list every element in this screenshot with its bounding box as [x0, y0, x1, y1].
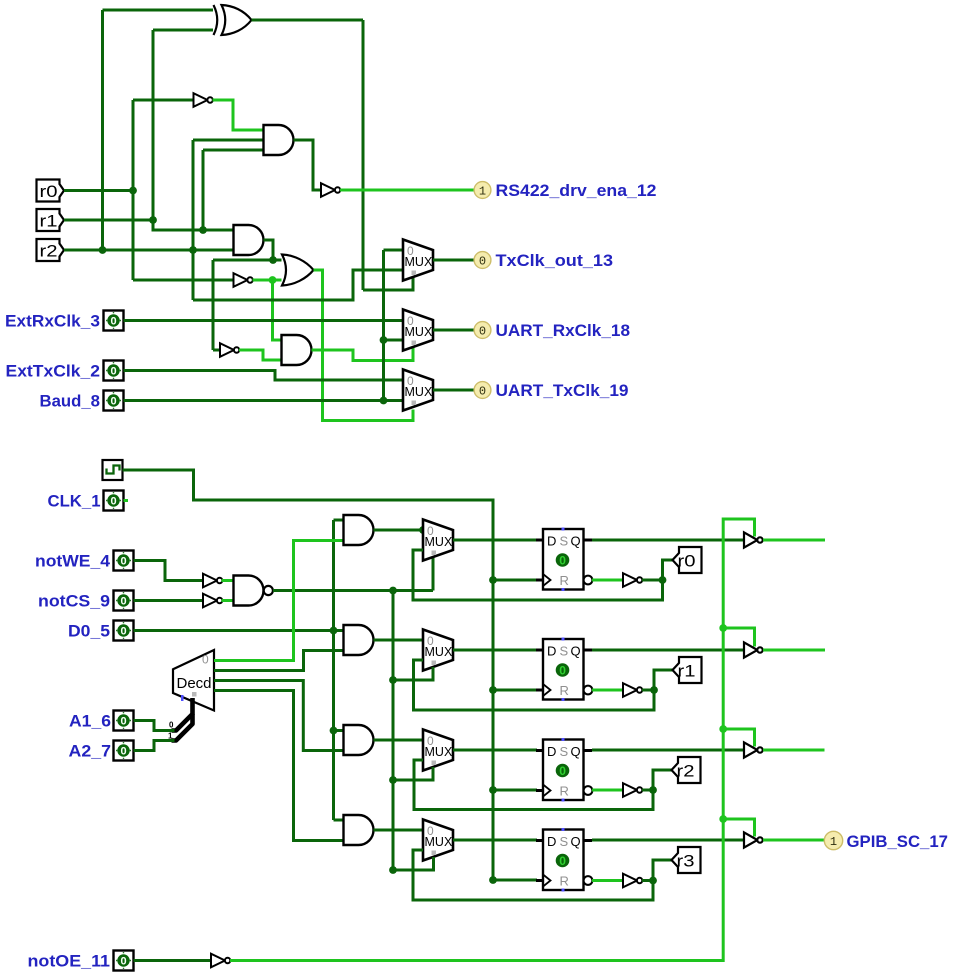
wire XOR1 output to MUX1 select rail — [252, 20, 364, 290]
wire vertical x133 — [132, 100, 135, 280]
inverter NOT2 — [321, 183, 340, 197]
label notCS_9 — [38, 593, 110, 611]
svg-text:0: 0 — [479, 384, 486, 398]
node enable-b junction — [719, 624, 727, 632]
wire to tunnel r0 — [663, 560, 673, 580]
flip-flop DFF-c — [536, 738, 592, 802]
wire NOT3 output to OR1 in2 — [253, 279, 282, 282]
svg-text:notCS_9: notCS_9 — [38, 593, 110, 611]
input pin A1_6 — [114, 711, 134, 731]
wire XOR input B from node x153 — [153, 30, 213, 220]
wire NOT5 out to NAND in1 — [222, 579, 234, 582]
node enable-c junction — [719, 725, 727, 733]
and gate AND-d — [344, 815, 374, 845]
inverter NOT-oe — [211, 954, 230, 968]
inverter NOT1 — [194, 93, 213, 107]
wire NOT3 out to AND3 in1 — [273, 280, 282, 340]
wire AND1 in2 from x193 rail — [193, 140, 264, 300]
wire CLK branch DFF-b — [493, 689, 537, 692]
svg-text:1: 1 — [479, 184, 486, 198]
wire enable branch d — [723, 819, 754, 837]
node AND2-in1 x203 junction — [199, 226, 207, 234]
node D0 junction — [330, 627, 338, 635]
label A1_6 — [69, 713, 111, 731]
label ExtTxClk_2 — [6, 363, 101, 381]
svg-text:MUX: MUX — [405, 325, 433, 339]
inverter NOT4 — [220, 343, 239, 357]
wire DFF-b notQ to NOT-b — [592, 689, 623, 692]
svg-text:S: S — [560, 644, 569, 659]
wire to tunnel r3 — [653, 860, 672, 881]
svg-text:0: 0 — [120, 556, 126, 568]
node AND2-out junction — [269, 256, 277, 264]
input pin notCS_9 — [114, 591, 134, 611]
multiplexer MUX-c — [423, 730, 453, 771]
svg-text:GPIB_SC_17: GPIB_SC_17 — [847, 833, 949, 851]
output pin TxClk_out_13 — [474, 252, 491, 269]
svg-text:TxClk_out_13: TxClk_out_13 — [496, 252, 614, 270]
splitter SPL1 — [168, 698, 193, 741]
wire NOT-b out — [642, 689, 654, 692]
output pin UART_TxClk_19 — [474, 382, 491, 399]
wire MUX3 out — [433, 389, 475, 392]
wire CLK branch DFF-a — [493, 579, 537, 582]
node CLK-c junction — [489, 786, 497, 794]
buffer BUF-a — [744, 532, 763, 547]
svg-text:R: R — [560, 874, 569, 889]
svg-text:notOE_11: notOE_11 — [28, 953, 111, 971]
wire DFF-b Q to buffer — [592, 649, 744, 652]
wire DFF-c Q to buffer — [592, 749, 744, 752]
wire AND1 output to NOT2 — [294, 140, 322, 190]
wire BUF-b out — [763, 649, 825, 652]
svg-text:S: S — [560, 834, 569, 849]
node select-b junction — [389, 676, 397, 684]
wire OR1 output to MUX3 select — [314, 270, 414, 421]
tunnel r1 (left) — [37, 209, 65, 231]
node Baud junction — [380, 397, 388, 405]
node CLK-d junction — [489, 876, 497, 884]
svg-text:0: 0 — [110, 396, 116, 408]
svg-text:0: 0 — [120, 746, 126, 758]
wire CLK branch DFF-c — [493, 789, 537, 792]
node MUX-a in0 junction — [419, 526, 427, 534]
svg-text:MUX: MUX — [405, 385, 433, 399]
wire select vertical x393 — [392, 591, 395, 871]
wire NOT1 output to AND1 in1 — [213, 100, 264, 130]
svg-text:0: 0 — [169, 721, 174, 730]
wire BUF-c out — [763, 749, 825, 752]
wire Baud rail to MUX2 in1 — [384, 339, 404, 342]
label notOE_11 — [28, 953, 111, 971]
wire ExtRxClk to MUX2 in0 — [124, 319, 404, 322]
svg-text:MUX: MUX — [425, 745, 453, 759]
wire XOR input A from node x102 — [103, 10, 214, 250]
xor gate XOR1 — [214, 5, 252, 35]
or gate OR1 — [282, 255, 314, 286]
label GPIB_SC_17 — [847, 833, 949, 851]
and gate AND3 — [282, 335, 312, 365]
multiplexer MUX-d — [423, 820, 453, 861]
node NOT-a junction — [659, 576, 667, 584]
multiplexer MUX3 — [403, 370, 433, 411]
wire NOT4 output to AND3 in2 — [239, 350, 282, 360]
tunnel r0 (right) — [673, 547, 702, 573]
output pin RS422_drv_ena_12 — [474, 182, 491, 199]
svg-text:D: D — [547, 834, 556, 849]
wire decoder out1 to AND-b in2 — [214, 651, 344, 671]
svg-text:RS422_drv_ena_12: RS422_drv_ena_12 — [496, 182, 657, 200]
wire MUX1-in1 feeder y300 — [193, 270, 403, 300]
node CLK-b junction — [489, 686, 497, 694]
svg-text:1: 1 — [830, 835, 837, 849]
and gate AND-c — [344, 725, 374, 755]
wire decoder out3 to AND-d in2 — [214, 691, 344, 841]
svg-text:0: 0 — [479, 324, 486, 338]
buffer BUF-c — [744, 742, 763, 757]
svg-text:MUX: MUX — [405, 255, 433, 269]
svg-text:D: D — [547, 644, 556, 659]
wire A2 to splitter leg1 — [134, 741, 175, 751]
node NOT-d junction — [649, 877, 657, 885]
svg-text:MUX: MUX — [425, 535, 453, 549]
wire r1 to node — [64, 219, 153, 222]
and gate AND-b — [344, 625, 374, 655]
svg-text:Decd: Decd — [177, 675, 212, 692]
flip-flop DFF-b — [536, 638, 592, 702]
input pin notWE_4 — [114, 551, 134, 571]
label ExtRxClk_3 — [5, 313, 100, 331]
wire MUX-c out to DFF-c D — [453, 749, 537, 752]
wire feedback row2 — [414, 660, 655, 710]
multiplexer MUX-a — [423, 520, 453, 561]
label UART_TxClk_19 — [496, 382, 629, 400]
wire r0 to node — [64, 189, 133, 192]
wire enable branch c — [723, 729, 754, 747]
inverter NOT-b — [623, 683, 642, 697]
wire NAND output / write-select rail — [273, 558, 433, 591]
wire feedback row1 — [413, 550, 663, 600]
svg-text:R: R — [560, 573, 569, 588]
wire Baud rail to MUX1 in0 — [384, 250, 404, 401]
wire NOT-a out — [642, 579, 663, 582]
svg-text:R: R — [560, 683, 569, 698]
wire DFF-c notQ to NOT-c — [592, 789, 623, 792]
input pin ExtRxClk_3 — [104, 311, 124, 331]
buffer BUF-b — [744, 642, 763, 657]
svg-text:r0: r0 — [678, 553, 696, 571]
tunnel r1 (right) — [673, 657, 702, 683]
svg-text:0: 0 — [110, 316, 116, 328]
wire OR1 in1 rail x213 — [213, 260, 282, 350]
svg-text:UART_RxClk_18: UART_RxClk_18 — [496, 322, 631, 340]
svg-text:R: R — [560, 784, 569, 799]
node NOT-b junction — [650, 686, 658, 694]
label notWE_4 — [35, 553, 111, 571]
svg-text:UART_TxClk_19: UART_TxClk_19 — [496, 382, 629, 400]
node D0-ANDc junction — [330, 727, 338, 735]
wire NOT4 input stub — [213, 349, 220, 352]
and gate AND2 — [234, 225, 264, 255]
svg-text:A2_7: A2_7 — [69, 743, 112, 761]
wire NOT3 input — [133, 279, 234, 282]
wire DFF-a notQ to NOT-a — [592, 579, 623, 582]
wire MUX-a out to DFF-a D — [453, 539, 537, 542]
svg-text:0: 0 — [559, 554, 566, 568]
svg-text:0: 0 — [202, 653, 209, 667]
node NAND-out junction — [389, 587, 397, 595]
wire AND-a out to MUX-a in0 — [374, 529, 424, 532]
svg-text:0: 0 — [559, 764, 566, 778]
node NOT3-out junction — [269, 276, 277, 284]
label Baud_8 — [40, 393, 101, 411]
wire CLK branch DFF-d — [493, 879, 537, 882]
wire notOE to NOT-oe — [134, 959, 212, 962]
label RS422_drv_ena_12 — [496, 182, 657, 200]
node NOT-c junction — [649, 786, 657, 794]
svg-text:ExtRxClk_3: ExtRxClk_3 — [5, 313, 100, 331]
decoder DEC1 — [173, 650, 214, 711]
input pin A2_7 — [114, 741, 134, 761]
wire enable rail — [230, 519, 755, 961]
buffer BUF-d — [744, 832, 763, 847]
wire ExtTxClk to MUX3 in0 — [124, 371, 404, 381]
svg-text:S: S — [560, 534, 569, 549]
tunnel r0 (left) — [37, 180, 65, 202]
svg-text:MUX: MUX — [425, 835, 453, 849]
wire r1 to AND2 in1 — [153, 220, 234, 230]
node r0 junction — [129, 187, 137, 195]
svg-text:Q: Q — [571, 744, 581, 759]
wire MUX-b out to DFF-b D — [453, 649, 537, 652]
tunnel r3 (right) — [672, 847, 701, 873]
wire AND-c out to MUX-c in0 — [374, 739, 424, 742]
wire NOT2 output to RS422 pin — [340, 189, 474, 192]
node select-c junction — [389, 776, 397, 784]
inverter NOT-c — [623, 783, 642, 797]
wire MUX2 out — [433, 329, 475, 332]
tunnel r2 (left) — [37, 239, 65, 261]
node r2-x102 junction — [99, 246, 107, 254]
svg-text:0: 0 — [559, 664, 566, 678]
wire MUX1 out — [433, 259, 474, 262]
wire notWE to NOT5 — [134, 561, 204, 581]
label A2_7 — [69, 743, 112, 761]
wire A1 to splitter leg0 — [134, 721, 175, 731]
input pin D0_5 — [114, 621, 134, 641]
inverter NOT-a — [623, 573, 642, 587]
label CLK_1 — [48, 493, 101, 511]
wire AND-d out to MUX-d in0 — [374, 829, 424, 832]
svg-text:Q: Q — [571, 834, 581, 849]
svg-text:D0_5: D0_5 — [68, 623, 110, 641]
wire select row3 — [393, 767, 433, 780]
svg-text:Baud_8: Baud_8 — [40, 393, 101, 411]
clock component CLK — [103, 460, 123, 480]
svg-text:0: 0 — [110, 366, 116, 378]
svg-text:ExtTxClk_2: ExtTxClk_2 — [6, 363, 101, 381]
wire DFF-a Q to buffer — [592, 539, 744, 542]
nand gate NAND1 — [234, 576, 273, 606]
node Baud-MUX2 junction — [380, 336, 388, 344]
label UART_RxClk_18 — [496, 322, 631, 340]
svg-text:D: D — [547, 534, 556, 549]
wire DFF-d notQ to NOT-d — [592, 879, 623, 882]
and gate AND-a — [344, 515, 374, 545]
node CLK-a junction — [489, 576, 497, 584]
node r1 junction — [149, 216, 157, 224]
wire AND-b out to MUX-b in0 — [374, 639, 424, 642]
wire MUX1 select route — [363, 277, 413, 290]
wire notCS to NOT6 — [134, 599, 204, 602]
input pin notOE_11 — [114, 951, 134, 971]
flip-flop DFF-d — [536, 828, 592, 892]
wire CLK to distribution rail — [123, 470, 494, 880]
wire Baud to MUX3 in1 — [124, 399, 404, 402]
svg-text:r1: r1 — [40, 213, 58, 231]
wire NOT-d out — [642, 879, 653, 882]
svg-text:0: 0 — [559, 854, 566, 868]
inverter NOT6 — [203, 594, 222, 608]
wire r2 to AND2 in2 — [64, 249, 234, 252]
svg-text:0: 0 — [110, 496, 116, 508]
svg-text:0: 0 — [120, 596, 126, 608]
svg-text:r3: r3 — [677, 853, 695, 871]
multiplexer MUX-b — [423, 630, 453, 671]
svg-text:Q: Q — [571, 644, 581, 659]
flip-flop DFF-a — [536, 528, 592, 592]
wire BUF-a out — [763, 539, 825, 542]
multiplexer MUX2 — [403, 310, 433, 351]
wire feedback row4 — [413, 850, 653, 900]
svg-text:D: D — [547, 744, 556, 759]
svg-text:CLK_1: CLK_1 — [48, 493, 101, 511]
label D0_5 — [68, 623, 110, 641]
node select-d junction — [389, 866, 397, 874]
wire AND3 output to MUX2 select — [312, 347, 414, 361]
wire DFF-d Q to buffer — [592, 839, 744, 842]
svg-text:A1_6: A1_6 — [69, 713, 111, 731]
label TxClk_out_13 — [496, 252, 614, 270]
wire feedback row3 — [414, 760, 653, 810]
output pin UART_RxClk_18 — [474, 322, 491, 339]
wire MUX-d out to DFF-d D — [453, 839, 537, 842]
wire select row4 — [393, 857, 434, 870]
svg-text:S: S — [560, 744, 569, 759]
svg-text:MUX: MUX — [425, 645, 453, 659]
wire AND1 in3 from x203 rail — [203, 150, 264, 230]
input pin ExtTxClk_2 — [104, 361, 124, 381]
svg-text:r2: r2 — [677, 763, 695, 781]
svg-text:r0: r0 — [40, 183, 58, 201]
input pin CLK_1 — [104, 491, 129, 511]
node r2-x193 junction — [189, 246, 197, 254]
svg-text:0: 0 — [120, 626, 126, 638]
and gate AND1 — [264, 125, 294, 155]
wire D0 vertical rail — [334, 520, 344, 820]
svg-text:notWE_4: notWE_4 — [35, 553, 111, 571]
svg-text:r1: r1 — [678, 663, 696, 681]
wire AND2 output to OR1 in1 — [264, 240, 274, 260]
wire to tunnel r1 — [654, 670, 673, 690]
wire to tunnel r2 — [653, 770, 672, 790]
wire BUF-d out to GPIB pin — [763, 839, 825, 842]
wire D0 to AND-b in1 — [134, 629, 344, 632]
wire select row2 — [393, 667, 433, 680]
svg-text:Q: Q — [571, 534, 581, 549]
node enable-d junction — [719, 815, 727, 823]
inverter NOT3 — [234, 273, 253, 287]
wire NOT1 input — [133, 99, 194, 102]
wire NOT-c out — [642, 789, 653, 792]
tunnel r2 (right) — [672, 757, 701, 783]
wire NOT6 out to NAND in2 — [222, 599, 234, 602]
svg-text:0: 0 — [120, 956, 126, 968]
input pin Baud_8 — [104, 391, 124, 411]
inverter NOT-d — [623, 874, 642, 888]
wire enable branch b — [723, 628, 754, 647]
svg-text:0: 0 — [479, 254, 486, 268]
output pin GPIB_SC_17 — [824, 831, 842, 849]
inverter NOT5 — [203, 574, 222, 588]
svg-text:0: 0 — [120, 716, 126, 728]
wire decoder out0 to AND-a in2 — [214, 541, 344, 661]
multiplexer MUX1 — [403, 240, 433, 281]
wire decoder out2 to AND-c in2 — [214, 681, 344, 751]
svg-text:r2: r2 — [40, 243, 58, 261]
